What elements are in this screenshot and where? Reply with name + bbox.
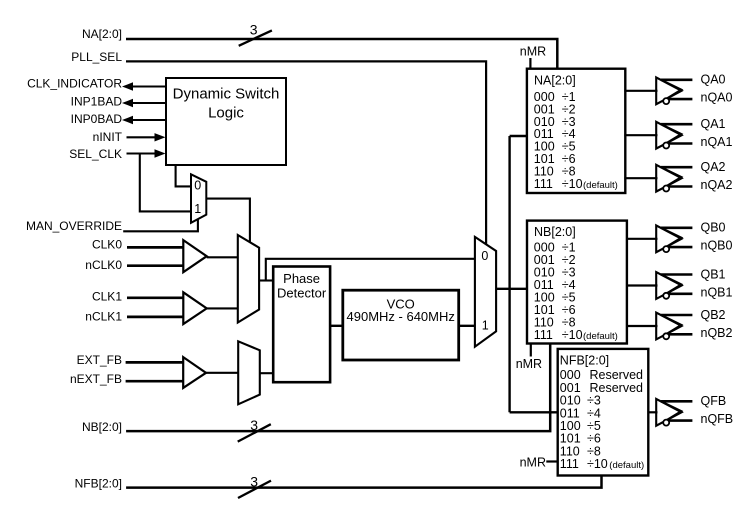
svg-text:nCLK1: nCLK1 [85, 309, 122, 323]
svg-text:Phase: Phase [283, 271, 320, 286]
svg-text:1: 1 [194, 202, 201, 216]
svg-text:nQA0: nQA0 [701, 91, 733, 105]
svg-text:3: 3 [250, 22, 258, 38]
svg-text:nQFB: nQFB [701, 412, 734, 426]
svg-text:Logic: Logic [208, 105, 244, 122]
svg-text:490MHz - 640MHz: 490MHz - 640MHz [347, 309, 455, 324]
svg-text:CLK_INDICATOR: CLK_INDICATOR [27, 77, 122, 91]
svg-text:EXT_FB: EXT_FB [77, 353, 122, 367]
svg-text:SEL_CLK: SEL_CLK [69, 147, 122, 161]
svg-text:nMR: nMR [520, 45, 546, 59]
svg-text:CLK0: CLK0 [92, 237, 122, 251]
svg-text:nCLK0: nCLK0 [85, 258, 122, 272]
svg-text:1: 1 [482, 319, 489, 333]
svg-text:QA2: QA2 [701, 160, 726, 174]
svg-text:111: 111 [534, 328, 553, 342]
svg-text:nINIT: nINIT [93, 130, 123, 144]
svg-text:nQB1: nQB1 [701, 285, 733, 299]
svg-text:nQA2: nQA2 [701, 178, 733, 192]
svg-text:(default): (default) [583, 331, 618, 342]
svg-text:INP1BAD: INP1BAD [71, 95, 123, 109]
svg-text:QB1: QB1 [701, 267, 726, 281]
svg-text:÷10: ÷10 [587, 457, 608, 471]
svg-text:QA0: QA0 [701, 73, 726, 87]
svg-text:NB[2:0]: NB[2:0] [82, 420, 122, 434]
svg-text:nQB0: nQB0 [701, 239, 733, 253]
svg-text:QB2: QB2 [701, 308, 726, 322]
svg-text:nEXT_FB: nEXT_FB [70, 372, 122, 386]
svg-text:QB0: QB0 [701, 221, 726, 235]
svg-text:CLK1: CLK1 [92, 290, 122, 304]
svg-text:nMR: nMR [516, 357, 542, 371]
svg-text:(default): (default) [583, 180, 618, 191]
svg-text:INP0BAD: INP0BAD [71, 112, 123, 126]
svg-text:PLL_SEL: PLL_SEL [71, 50, 122, 64]
svg-text:0: 0 [481, 249, 488, 263]
svg-text:Dynamic Switch: Dynamic Switch [173, 86, 280, 103]
svg-text:NFB[2:0]: NFB[2:0] [560, 354, 609, 368]
svg-text:111: 111 [534, 177, 553, 191]
svg-text:QA1: QA1 [701, 117, 726, 131]
svg-text:111: 111 [560, 457, 579, 471]
svg-text:NFB[2:0]: NFB[2:0] [75, 476, 122, 490]
svg-text:÷10: ÷10 [562, 177, 583, 191]
svg-text:÷10: ÷10 [562, 328, 583, 342]
svg-text:3: 3 [250, 474, 258, 490]
svg-text:MAN_OVERRIDE: MAN_OVERRIDE [26, 219, 122, 233]
svg-text:0: 0 [194, 179, 201, 193]
svg-text:(default): (default) [609, 460, 644, 471]
svg-text:nQB2: nQB2 [701, 326, 733, 340]
svg-text:NA[2:0]: NA[2:0] [82, 27, 122, 41]
svg-text:nQA1: nQA1 [701, 135, 733, 149]
svg-text:NB[2:0]: NB[2:0] [534, 225, 576, 239]
svg-text:Detector: Detector [277, 286, 327, 301]
svg-text:NA[2:0]: NA[2:0] [534, 73, 576, 87]
svg-text:3: 3 [250, 417, 258, 433]
svg-text:QFB: QFB [701, 394, 727, 408]
svg-text:nMR: nMR [520, 455, 546, 469]
